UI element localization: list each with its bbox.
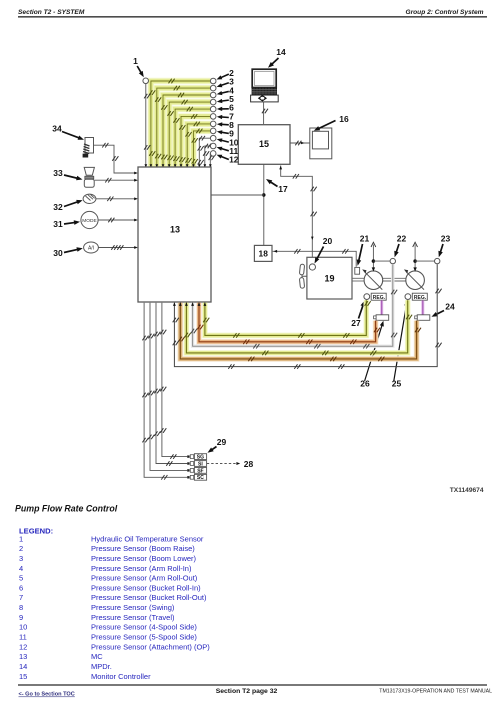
svg-text:Pressure Sensor (Arm Roll-Out): Pressure Sensor (Arm Roll-Out) bbox=[91, 574, 198, 583]
box 18 bbox=[254, 245, 272, 261]
wires from sensors 10-12 bbox=[199, 138, 210, 167]
svg-text:5: 5 bbox=[19, 574, 23, 583]
wire to node 23 bbox=[415, 260, 434, 262]
sensor circle 11 bbox=[210, 143, 216, 149]
circle 20 (sensor in box 19) bbox=[309, 264, 315, 270]
wire 34 to MC bbox=[94, 145, 137, 173]
svg-text:14: 14 bbox=[19, 662, 27, 671]
wire 33 to MC bbox=[95, 179, 137, 181]
svg-text:13: 13 bbox=[19, 652, 27, 661]
arrowheads into MC top bbox=[145, 164, 148, 168]
dashed link 28 bbox=[207, 463, 237, 465]
svg-text:MODE: MODE bbox=[82, 218, 96, 224]
svg-text:29: 29 bbox=[217, 437, 227, 447]
svg-text:21: 21 bbox=[360, 234, 370, 244]
REG box pump 1 bbox=[371, 293, 386, 300]
svg-text:Monitor Controller: Monitor Controller bbox=[91, 672, 151, 681]
svg-text:Section T2 - SYSTEM: Section T2 - SYSTEM bbox=[18, 9, 85, 16]
svg-text:Pressure Sensor (Boom Raise): Pressure Sensor (Boom Raise) bbox=[91, 544, 195, 553]
component 34 (key switch) bbox=[85, 138, 94, 154]
svg-text:28: 28 bbox=[244, 459, 254, 469]
footer rule bbox=[18, 684, 487, 686]
valve box 24 bbox=[417, 315, 430, 321]
solenoid line pump1 (violet) bbox=[380, 300, 383, 314]
svg-text:Pressure Sensor (Bucket Roll-O: Pressure Sensor (Bucket Roll-Out) bbox=[91, 593, 207, 602]
sensor circle 2 bbox=[210, 78, 216, 84]
pump 1 control line up bbox=[372, 261, 374, 267]
svg-text:REG.: REG. bbox=[373, 295, 386, 301]
svg-text:24: 24 bbox=[445, 302, 455, 312]
svg-text:Pressure Sensor (4-Spool Side): Pressure Sensor (4-Spool Side) bbox=[91, 623, 197, 632]
component 30 (A/I switch) bbox=[84, 242, 99, 253]
sensor circle 10 bbox=[210, 135, 216, 141]
svg-text:TM13173X19-OPERATION AND TEST: TM13173X19-OPERATION AND TEST MANUAL bbox=[379, 688, 492, 694]
sensor circle 7 bbox=[210, 114, 216, 120]
REG box pump 2 bbox=[412, 293, 427, 300]
svg-text:7: 7 bbox=[19, 593, 23, 602]
svg-text:Pressure Sensor (Attachment) (: Pressure Sensor (Attachment) (OP) bbox=[91, 642, 210, 651]
svg-text:33: 33 bbox=[53, 168, 63, 178]
svg-text:1: 1 bbox=[19, 534, 23, 543]
svg-text:20: 20 bbox=[323, 236, 333, 246]
svg-text:27: 27 bbox=[351, 318, 361, 328]
harness wire orange: MC to valve 26 bbox=[199, 303, 376, 342]
svg-text:Pressure Sensor (Bucket Roll-I: Pressure Sensor (Bucket Roll-In) bbox=[91, 583, 201, 592]
connector SG bbox=[187, 455, 189, 457]
svg-text:31: 31 bbox=[53, 219, 63, 229]
wire 21 to 18 bbox=[273, 251, 357, 266]
svg-text:REG.: REG. bbox=[414, 295, 427, 301]
svg-text:22: 22 bbox=[397, 234, 407, 244]
svg-text:MC: MC bbox=[91, 652, 103, 661]
wire from 19 up into 15 bbox=[281, 166, 313, 264]
solenoid line pump2 (violet) bbox=[421, 300, 424, 314]
svg-text:SG: SG bbox=[197, 455, 204, 461]
wire harness: yellow sensor wires 2-9 (bands) bbox=[151, 81, 211, 167]
harness wire black: MC to node 23 bbox=[174, 264, 437, 366]
svg-text:LEGEND:: LEGEND: bbox=[19, 527, 53, 536]
pump 2 control line up bbox=[414, 261, 416, 267]
svg-text:25: 25 bbox=[392, 379, 402, 389]
svg-text:12: 12 bbox=[229, 155, 239, 165]
svg-text:Section T2 page 32: Section T2 page 32 bbox=[216, 688, 278, 695]
connector SI bbox=[187, 462, 189, 464]
wires MC to serial connectors bbox=[162, 303, 187, 457]
arrowheads into MC bottom bbox=[173, 302, 176, 306]
pump 1 circle bbox=[364, 271, 383, 290]
MC controller box 13 bbox=[138, 167, 211, 302]
wire 30 to MC bbox=[98, 247, 136, 249]
svg-text:9: 9 bbox=[19, 613, 23, 622]
sensor circle 9 bbox=[210, 128, 216, 134]
square 21 (pilot valve) bbox=[355, 267, 360, 274]
svg-text:13: 13 bbox=[170, 225, 180, 235]
svg-text:15: 15 bbox=[259, 139, 269, 149]
svg-text:4: 4 bbox=[19, 564, 23, 573]
wire laptop to 15 bbox=[263, 102, 265, 124]
component 33 (reservoir) bbox=[84, 167, 94, 175]
harness wire yellow: MC to circle 27 bbox=[205, 300, 366, 335]
svg-text:SC: SC bbox=[197, 475, 204, 481]
wire ticks on yellow bundle bbox=[169, 79, 172, 84]
fan symbol bbox=[299, 264, 307, 288]
wire from node 1 into MC bbox=[145, 84, 147, 167]
svg-text:10: 10 bbox=[19, 623, 27, 632]
svg-text:SF: SF bbox=[197, 468, 203, 474]
junction dot bbox=[262, 193, 265, 196]
svg-text:2: 2 bbox=[19, 544, 23, 553]
ticks on harness wires bbox=[203, 318, 206, 323]
sensor circle 4 bbox=[210, 92, 216, 98]
pump 2 circle bbox=[406, 271, 425, 290]
svg-text:11: 11 bbox=[19, 633, 27, 642]
connector SF bbox=[187, 469, 189, 471]
svg-text:30: 30 bbox=[53, 248, 63, 258]
svg-text:Pressure Sensor (Swing): Pressure Sensor (Swing) bbox=[91, 603, 175, 612]
connector SC bbox=[187, 476, 189, 478]
svg-text:SI: SI bbox=[198, 461, 203, 467]
svg-text:Pressure Sensor (5-Spool Side): Pressure Sensor (5-Spool Side) bbox=[91, 633, 197, 642]
svg-text:6: 6 bbox=[19, 583, 23, 592]
harness wire green: MC to circle 25 bbox=[186, 300, 407, 353]
circle 27 bbox=[364, 294, 370, 300]
svg-text:1: 1 bbox=[133, 56, 138, 66]
node circle 23 bbox=[435, 258, 440, 263]
ticks on connector wires bbox=[160, 330, 163, 335]
wire 32 to MC bbox=[96, 198, 137, 200]
svg-text:Pump Flow Rate Control: Pump Flow Rate Control bbox=[15, 504, 118, 514]
engine box 19 bbox=[307, 257, 352, 299]
svg-text:32: 32 bbox=[53, 202, 63, 212]
sensor circle 5 bbox=[210, 99, 216, 105]
svg-text:Pressure Sensor (Boom Lower): Pressure Sensor (Boom Lower) bbox=[91, 554, 197, 563]
node circle 22 bbox=[390, 258, 395, 263]
svg-text:TX1149674: TX1149674 bbox=[450, 487, 484, 494]
laptop 14 (MPDr.) bbox=[252, 69, 276, 87]
valve box 26 bbox=[376, 315, 389, 321]
node 1 (hydraulic oil temperature sensor) bbox=[143, 78, 149, 84]
sensor circle 6 bbox=[210, 106, 216, 112]
svg-text:Hydraulic Oil Temperature Sens: Hydraulic Oil Temperature Sensor bbox=[91, 534, 204, 543]
junction dot pump 1 bbox=[372, 259, 375, 262]
svg-text:15: 15 bbox=[19, 672, 27, 681]
svg-text:12: 12 bbox=[19, 642, 27, 651]
svg-text:18: 18 bbox=[259, 249, 269, 259]
monitor box 16 bbox=[310, 128, 332, 159]
wire to node 22 bbox=[373, 260, 390, 262]
svg-text:23: 23 bbox=[441, 234, 451, 244]
svg-text:34: 34 bbox=[52, 124, 62, 134]
svg-text:14: 14 bbox=[276, 47, 286, 57]
harness glow bbox=[205, 300, 366, 335]
svg-text:16: 16 bbox=[339, 114, 349, 124]
svg-text:19: 19 bbox=[324, 274, 334, 284]
svg-text:17: 17 bbox=[278, 184, 288, 194]
svg-text:8: 8 bbox=[19, 603, 23, 612]
circle 25 bbox=[405, 294, 411, 300]
component 31 (MODE switch) bbox=[81, 211, 98, 228]
sensor circle 3 bbox=[210, 85, 216, 91]
wire junction to MC right edge bbox=[211, 194, 264, 196]
svg-text:Pressure Sensor (Travel): Pressure Sensor (Travel) bbox=[91, 613, 175, 622]
svg-text:3: 3 bbox=[19, 554, 23, 563]
harness wire brown: MC to valve 24 bbox=[180, 303, 416, 359]
wire harness glow bbox=[151, 81, 211, 167]
monitor controller box 15 bbox=[238, 125, 290, 165]
wire harness: yellow sensor wires 2-9 (core lines) bbox=[151, 81, 211, 167]
wire 15 down to 18 bbox=[263, 164, 265, 245]
header rule bbox=[18, 16, 487, 18]
svg-text:<- Go to Section TOC: <- Go to Section TOC bbox=[19, 692, 75, 698]
sensor circle 12 bbox=[210, 151, 216, 157]
svg-text:MPDr.: MPDr. bbox=[91, 662, 112, 671]
component 32 (dial) bbox=[83, 194, 96, 203]
junction dot pump 2 bbox=[413, 259, 416, 262]
svg-text:A/I: A/I bbox=[88, 246, 94, 252]
wire 15 to 16 bbox=[290, 142, 310, 144]
svg-text:Group 2: Control System: Group 2: Control System bbox=[405, 9, 483, 16]
wire 31 to MC bbox=[98, 219, 136, 221]
pump shaft lines bbox=[352, 277, 364, 279]
harness wire gray: MC to node 22 bbox=[193, 264, 393, 346]
svg-text:Pressure Sensor (Arm Roll-In): Pressure Sensor (Arm Roll-In) bbox=[91, 564, 192, 573]
sensor circle 8 bbox=[210, 121, 216, 127]
